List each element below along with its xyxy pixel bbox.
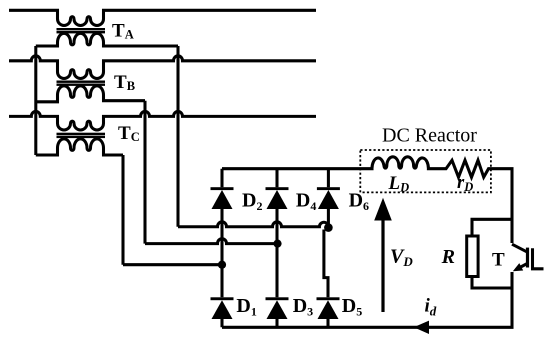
svg-text:R: R: [441, 246, 455, 268]
svg-text:T: T: [492, 250, 505, 271]
svg-text:DC Reactor: DC Reactor: [382, 125, 477, 147]
